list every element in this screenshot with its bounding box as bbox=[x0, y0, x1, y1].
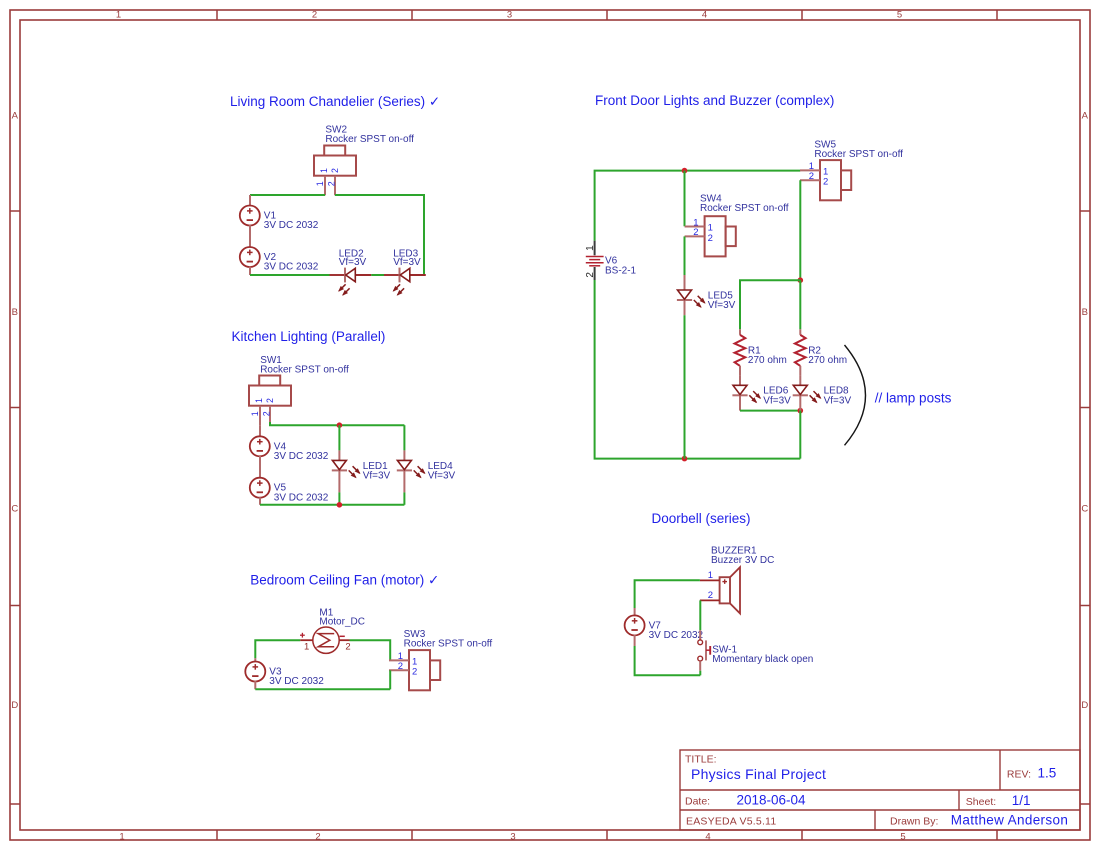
switch SW4 rocker knob bbox=[726, 227, 736, 247]
svg-text:Kitchen Lighting (Parallel): Kitchen Lighting (Parallel) bbox=[232, 329, 386, 344]
buzzer BUZZER1 pin 2 bbox=[700, 599, 720, 601]
svg-text:2: 2 bbox=[327, 181, 337, 186]
svg-text:D: D bbox=[1081, 700, 1088, 711]
svg-text:2: 2 bbox=[315, 831, 320, 842]
V2 pin 2 lead bbox=[249, 267, 251, 275]
resistor R1 zigzag bbox=[735, 335, 746, 366]
wire bottom return to SW3 bbox=[255, 688, 390, 690]
LED LED8 anode lead bbox=[799, 375, 801, 385]
LED LED3 triangle bbox=[400, 268, 410, 281]
LED LED6 light arrows bbox=[749, 391, 761, 403]
title block outline bbox=[680, 750, 1080, 830]
svg-text:270 ohm: 270 ohm bbox=[748, 355, 787, 366]
svg-text:Vf=3V: Vf=3V bbox=[824, 395, 852, 406]
svg-text:5: 5 bbox=[897, 10, 902, 21]
V5 pin 2 lead bbox=[259, 497, 261, 505]
wire SW5 pin2 down to lamp branch node bbox=[799, 180, 801, 280]
svg-text:1.5: 1.5 bbox=[1038, 765, 1057, 780]
title block row divider 1 bbox=[680, 789, 1080, 791]
V3 pin 1 lead bbox=[254, 658, 256, 662]
switch SW5 pin 1 bbox=[800, 169, 820, 171]
svg-text:B: B bbox=[1082, 307, 1088, 318]
svg-text:3V DC 2032: 3V DC 2032 bbox=[264, 262, 319, 273]
svg-text:1: 1 bbox=[708, 570, 713, 581]
junction lamp branch top node bbox=[798, 277, 804, 283]
V4 pin 1 lead bbox=[259, 425, 261, 436]
frame right row letters A-D bbox=[1081, 111, 1088, 711]
LED LED8 cathode lead bbox=[799, 395, 801, 410]
motor M1 sigma mark bbox=[318, 634, 334, 647]
svg-text:Vf=3V: Vf=3V bbox=[428, 470, 456, 481]
svg-text:2: 2 bbox=[312, 10, 317, 21]
switch SW-1 pin 2 lead bbox=[699, 661, 701, 671]
svg-text:Vf=3V: Vf=3V bbox=[393, 257, 421, 268]
switch SW2 rocker knob bbox=[324, 146, 345, 156]
svg-text:TITLE:: TITLE: bbox=[685, 754, 717, 766]
wire LED5 down to bottom node bbox=[684, 315, 686, 458]
LED LED5 anode lead bbox=[684, 275, 686, 290]
svg-text:3V DC 2032: 3V DC 2032 bbox=[274, 492, 329, 503]
switch SW3 pin 1 bbox=[389, 659, 409, 661]
svg-text:1: 1 bbox=[119, 831, 124, 842]
motor M1 body bbox=[313, 627, 339, 653]
svg-text:2: 2 bbox=[823, 177, 828, 188]
svg-text:REV:: REV: bbox=[1007, 768, 1031, 780]
switch SW-1 actuator cap bbox=[709, 646, 711, 655]
switch SW4 body bbox=[705, 216, 726, 256]
V4-V5 connecting lead bbox=[259, 456, 261, 478]
svg-text:1: 1 bbox=[304, 641, 309, 652]
svg-text:Drawn By:: Drawn By: bbox=[890, 815, 938, 827]
switch SW2 pin 2 bbox=[334, 176, 336, 196]
switch SW5 body bbox=[820, 160, 841, 200]
LED LED4 anode lead bbox=[403, 450, 405, 460]
svg-text:1: 1 bbox=[254, 398, 264, 403]
frame top column numbers 1-5 bbox=[116, 10, 902, 21]
svg-text:Vf=3V: Vf=3V bbox=[708, 300, 736, 311]
LED LED2 cathode bar bbox=[344, 268, 346, 283]
svg-text:Physics Final Project: Physics Final Project bbox=[691, 766, 826, 782]
svg-text:C: C bbox=[1081, 503, 1088, 514]
wire parallel bottom rail bbox=[260, 504, 404, 506]
svg-text:Vf=3V: Vf=3V bbox=[339, 257, 367, 268]
voltage source V4 bbox=[250, 436, 270, 456]
voltage source V1 bbox=[240, 206, 260, 226]
title block Sheet divider bbox=[958, 790, 960, 810]
resistor R1 lead bottom bbox=[739, 366, 741, 375]
svg-text:1: 1 bbox=[585, 245, 596, 251]
svg-text:1: 1 bbox=[250, 411, 260, 416]
svg-text:3V DC 2032: 3V DC 2032 bbox=[269, 676, 324, 687]
battery V6 pin 1 bbox=[594, 241, 596, 256]
junction lamp branch bottom node bbox=[798, 408, 804, 414]
LED LED2 triangle bbox=[346, 268, 356, 281]
wire SW4 pin2 down to LED5 bbox=[684, 236, 686, 275]
wire motor pin2 to SW3 pin1 bbox=[350, 640, 391, 660]
svg-text:Buzzer 3V DC: Buzzer 3V DC bbox=[711, 555, 774, 566]
switch SW1 rocker knob bbox=[259, 376, 280, 386]
LED LED3 cathode bar bbox=[399, 268, 401, 283]
svg-text:Front Door Lights and Buzzer (: Front Door Lights and Buzzer (complex) bbox=[595, 93, 834, 108]
junction parallel top rail bbox=[337, 422, 343, 428]
svg-text:3: 3 bbox=[510, 831, 515, 842]
LED LED2 cathode lead bbox=[330, 274, 346, 276]
LED LED6 cathode bar bbox=[732, 394, 747, 396]
svg-text:Sheet:: Sheet: bbox=[966, 796, 996, 808]
svg-text:B: B bbox=[12, 307, 18, 318]
battery V6 pin 2 bbox=[594, 267, 596, 280]
svg-text:1: 1 bbox=[116, 10, 121, 21]
LED LED6 cathode lead bbox=[739, 395, 741, 410]
svg-text:Vf=3V: Vf=3V bbox=[363, 470, 391, 481]
svg-text:A: A bbox=[12, 111, 19, 122]
motor M1 minus mark bbox=[340, 635, 345, 637]
LED LED1 light arrows bbox=[349, 466, 361, 478]
LED LED3 light arrows bbox=[393, 284, 405, 296]
svg-text:270 ohm: 270 ohm bbox=[808, 355, 847, 366]
svg-text:2: 2 bbox=[262, 411, 272, 416]
buzzer BUZZER1 pin 1 bbox=[700, 579, 720, 581]
wire SW1 pin2 to parallel top rail bbox=[270, 422, 404, 425]
svg-text:Rocker SPST on-off: Rocker SPST on-off bbox=[404, 639, 493, 650]
frame left row letters A-D bbox=[11, 111, 18, 711]
switch SW-1 pin 1 lead bbox=[699, 630, 701, 639]
LED LED5 light arrows bbox=[694, 296, 706, 308]
LED LED1 cathode bar bbox=[332, 469, 347, 471]
wire SW-1 to bottom return bbox=[699, 671, 701, 676]
wire lamp branch node down to R2 bbox=[799, 280, 801, 329]
LED LED5 cathode lead bbox=[684, 300, 686, 315]
wire LED4 down to bottom rail bbox=[403, 492, 405, 504]
LED LED2 light arrows bbox=[338, 284, 350, 296]
junction bottom node bbox=[682, 456, 688, 462]
svg-text:Motor_DC: Motor_DC bbox=[319, 617, 365, 628]
LED LED4 cathode bar bbox=[397, 469, 412, 471]
switch SW5 rocker knob bbox=[841, 170, 851, 190]
svg-text:2: 2 bbox=[330, 168, 340, 173]
svg-text:3V DC 2032: 3V DC 2032 bbox=[274, 451, 329, 462]
svg-text:1: 1 bbox=[319, 168, 329, 173]
wire SW3 pin2 down to bottom return bbox=[389, 670, 391, 689]
title block Drawn By divider bbox=[874, 810, 876, 830]
svg-text:2: 2 bbox=[708, 590, 713, 601]
svg-text:3: 3 bbox=[507, 10, 512, 21]
svg-text:Rocker SPST on-off: Rocker SPST on-off bbox=[325, 134, 414, 145]
title block REV divider bbox=[999, 750, 1001, 790]
svg-text:BS-2-1: BS-2-1 bbox=[605, 265, 637, 276]
svg-text:2018-06-04: 2018-06-04 bbox=[737, 793, 807, 808]
svg-text:4: 4 bbox=[705, 831, 710, 842]
svg-text:C: C bbox=[11, 503, 18, 514]
svg-text:Rocker SPST on-off: Rocker SPST on-off bbox=[260, 364, 349, 375]
wire LED6 to lamp branch bottom node bbox=[740, 410, 800, 412]
voltage source V7 bbox=[625, 615, 645, 635]
switch SW3 body bbox=[409, 650, 430, 690]
switch SW-1 contact 1 bbox=[698, 640, 703, 645]
wire top node down to SW4 pin1 bbox=[684, 171, 686, 227]
wire LED2 to LED3 bbox=[371, 274, 384, 276]
wire SW2 pin2 to right side (node top-right) bbox=[335, 195, 424, 275]
svg-text:EASYEDA V5.5.11: EASYEDA V5.5.11 bbox=[686, 815, 776, 827]
svg-text:2: 2 bbox=[265, 398, 275, 403]
V3 pin 2 lead bbox=[254, 681, 256, 689]
LED LED3 cathode lead bbox=[384, 274, 400, 276]
V7 pin 2 lead bbox=[634, 635, 636, 646]
resistor R2 lead bottom bbox=[799, 366, 801, 375]
svg-text:2: 2 bbox=[412, 667, 417, 678]
frame bottom column numbers 1-5 bbox=[119, 831, 905, 842]
frame left tick marks bbox=[10, 211, 20, 804]
svg-text:3V DC 2032: 3V DC 2032 bbox=[649, 630, 704, 641]
svg-text:2: 2 bbox=[708, 233, 713, 244]
switch SW1 pin 1 bbox=[259, 406, 261, 426]
buzzer BUZZER1 body bbox=[720, 577, 730, 603]
wire battery bottom to bottom node bbox=[595, 280, 685, 459]
V7 pin 1 lead bbox=[634, 608, 636, 616]
buzzer BUZZER1 plus mark bbox=[722, 579, 727, 584]
LED LED1 cathode lead bbox=[338, 470, 340, 492]
resistor R2 lead top bbox=[799, 329, 801, 335]
resistor R2 zigzag bbox=[795, 335, 806, 366]
wire LED1 down to bottom rail bbox=[338, 492, 340, 504]
motor M1 plus mark bbox=[300, 633, 305, 638]
svg-text:2: 2 bbox=[398, 661, 403, 672]
LED LED2 anode lead bbox=[355, 274, 371, 276]
switch SW-1 actuator stem bbox=[706, 649, 710, 651]
svg-text:1/1: 1/1 bbox=[1012, 793, 1031, 808]
svg-text:Living Room Chandelier (Series: Living Room Chandelier (Series) ✓ bbox=[230, 94, 440, 109]
switch SW3 rocker knob bbox=[430, 660, 440, 680]
voltage source V2 bbox=[240, 247, 260, 267]
frame right tick marks bbox=[1080, 211, 1090, 804]
svg-text:5: 5 bbox=[900, 831, 905, 842]
wire top rail down to LED1 bbox=[338, 425, 340, 450]
svg-text:Bedroom Ceiling Fan (motor) ✓: Bedroom Ceiling Fan (motor) ✓ bbox=[250, 572, 439, 587]
voltage source V3 bbox=[245, 662, 265, 682]
LED LED8 cathode bar bbox=[793, 394, 808, 396]
LED LED4 triangle bbox=[397, 460, 411, 469]
svg-text:2: 2 bbox=[809, 171, 814, 182]
motor M1 pin 2 bbox=[339, 639, 349, 641]
wire lamp branch bottom to circuit bottom bbox=[799, 411, 801, 459]
frame bottom tick marks bbox=[217, 830, 997, 840]
svg-text:Doorbell (series): Doorbell (series) bbox=[652, 511, 751, 526]
motor M1 pin 1 bbox=[300, 639, 313, 641]
LED LED6 anode lead bbox=[739, 375, 741, 385]
svg-text:3V DC 2032: 3V DC 2032 bbox=[264, 220, 319, 231]
LED LED5 cathode bar bbox=[677, 299, 692, 301]
svg-text:Matthew Anderson: Matthew Anderson bbox=[951, 813, 1068, 828]
LED LED8 light arrows bbox=[810, 391, 822, 403]
svg-text:Rocker SPST on-off: Rocker SPST on-off bbox=[814, 149, 903, 160]
voltage source V5 bbox=[250, 478, 270, 498]
wire V7 to SW-1 bottom bbox=[635, 646, 701, 675]
buzzer BUZZER1 horn bbox=[730, 567, 740, 613]
resistor R1 lead top bbox=[739, 329, 741, 335]
svg-text:4: 4 bbox=[702, 10, 707, 21]
frame top tick marks bbox=[217, 10, 997, 20]
svg-text:1: 1 bbox=[315, 181, 325, 186]
wire lamp branch top to R1 bbox=[740, 280, 800, 329]
LED LED5 triangle bbox=[678, 290, 692, 299]
wire top node to SW5 pin1 bbox=[685, 170, 801, 172]
switch SW1 body bbox=[249, 386, 291, 406]
svg-text:Momentary black open: Momentary black open bbox=[712, 654, 813, 665]
wire V2 to LED2 bbox=[250, 274, 330, 276]
svg-text:D: D bbox=[11, 700, 18, 711]
LED LED6 triangle bbox=[733, 385, 747, 394]
switch SW-1 actuator bar bbox=[705, 640, 707, 660]
svg-text:Rocker SPST on-off: Rocker SPST on-off bbox=[700, 203, 789, 214]
switch SW4 pin 2 bbox=[685, 235, 705, 237]
switch SW1 pin 2 bbox=[269, 406, 271, 426]
lamp posts bracket bbox=[845, 345, 866, 445]
svg-text:// lamp posts: // lamp posts bbox=[875, 391, 952, 406]
switch SW-1 contact 2 bbox=[698, 656, 703, 661]
LED LED3 anode lead bbox=[410, 274, 426, 276]
switch SW2 pin 1 bbox=[324, 176, 326, 196]
svg-text:Vf=3V: Vf=3V bbox=[763, 395, 791, 406]
LED LED4 light arrows bbox=[414, 466, 426, 478]
LED LED8 triangle bbox=[793, 385, 807, 394]
LED LED4 cathode lead bbox=[403, 470, 405, 492]
battery V6 plates bbox=[586, 257, 604, 266]
wire battery to top node bbox=[595, 171, 685, 241]
switch SW4 pin 1 bbox=[685, 226, 705, 228]
junction parallel bottom rail bbox=[337, 502, 343, 508]
switch SW2 body bbox=[314, 156, 356, 176]
svg-text:A: A bbox=[1082, 111, 1089, 122]
svg-text:2: 2 bbox=[585, 272, 596, 278]
LED LED1 anode lead bbox=[338, 450, 340, 460]
svg-text:2: 2 bbox=[693, 227, 698, 238]
svg-text:Date:: Date: bbox=[685, 796, 710, 808]
switch SW3 pin 2 bbox=[389, 669, 409, 671]
junction top node bbox=[682, 168, 688, 174]
wire buzzer pin1 to V7 bbox=[635, 580, 700, 608]
title block row divider 2 bbox=[680, 809, 1080, 811]
V1 pin 1 lead bbox=[249, 195, 251, 206]
wire buzzer pin2 down to SW-1 bbox=[699, 600, 701, 630]
wire motor pin1 to V3 bbox=[255, 640, 300, 658]
svg-text:2: 2 bbox=[345, 641, 350, 652]
LED LED1 triangle bbox=[332, 460, 346, 469]
switch SW5 pin 2 bbox=[800, 179, 820, 181]
V1-V2 connecting lead bbox=[249, 225, 251, 247]
wire bottom node to SW5 branch bottom bbox=[685, 458, 801, 460]
wire SW2 pin1 to V1 branch (node top-left) bbox=[250, 194, 325, 196]
wire top rail down to LED4 bbox=[403, 425, 405, 450]
